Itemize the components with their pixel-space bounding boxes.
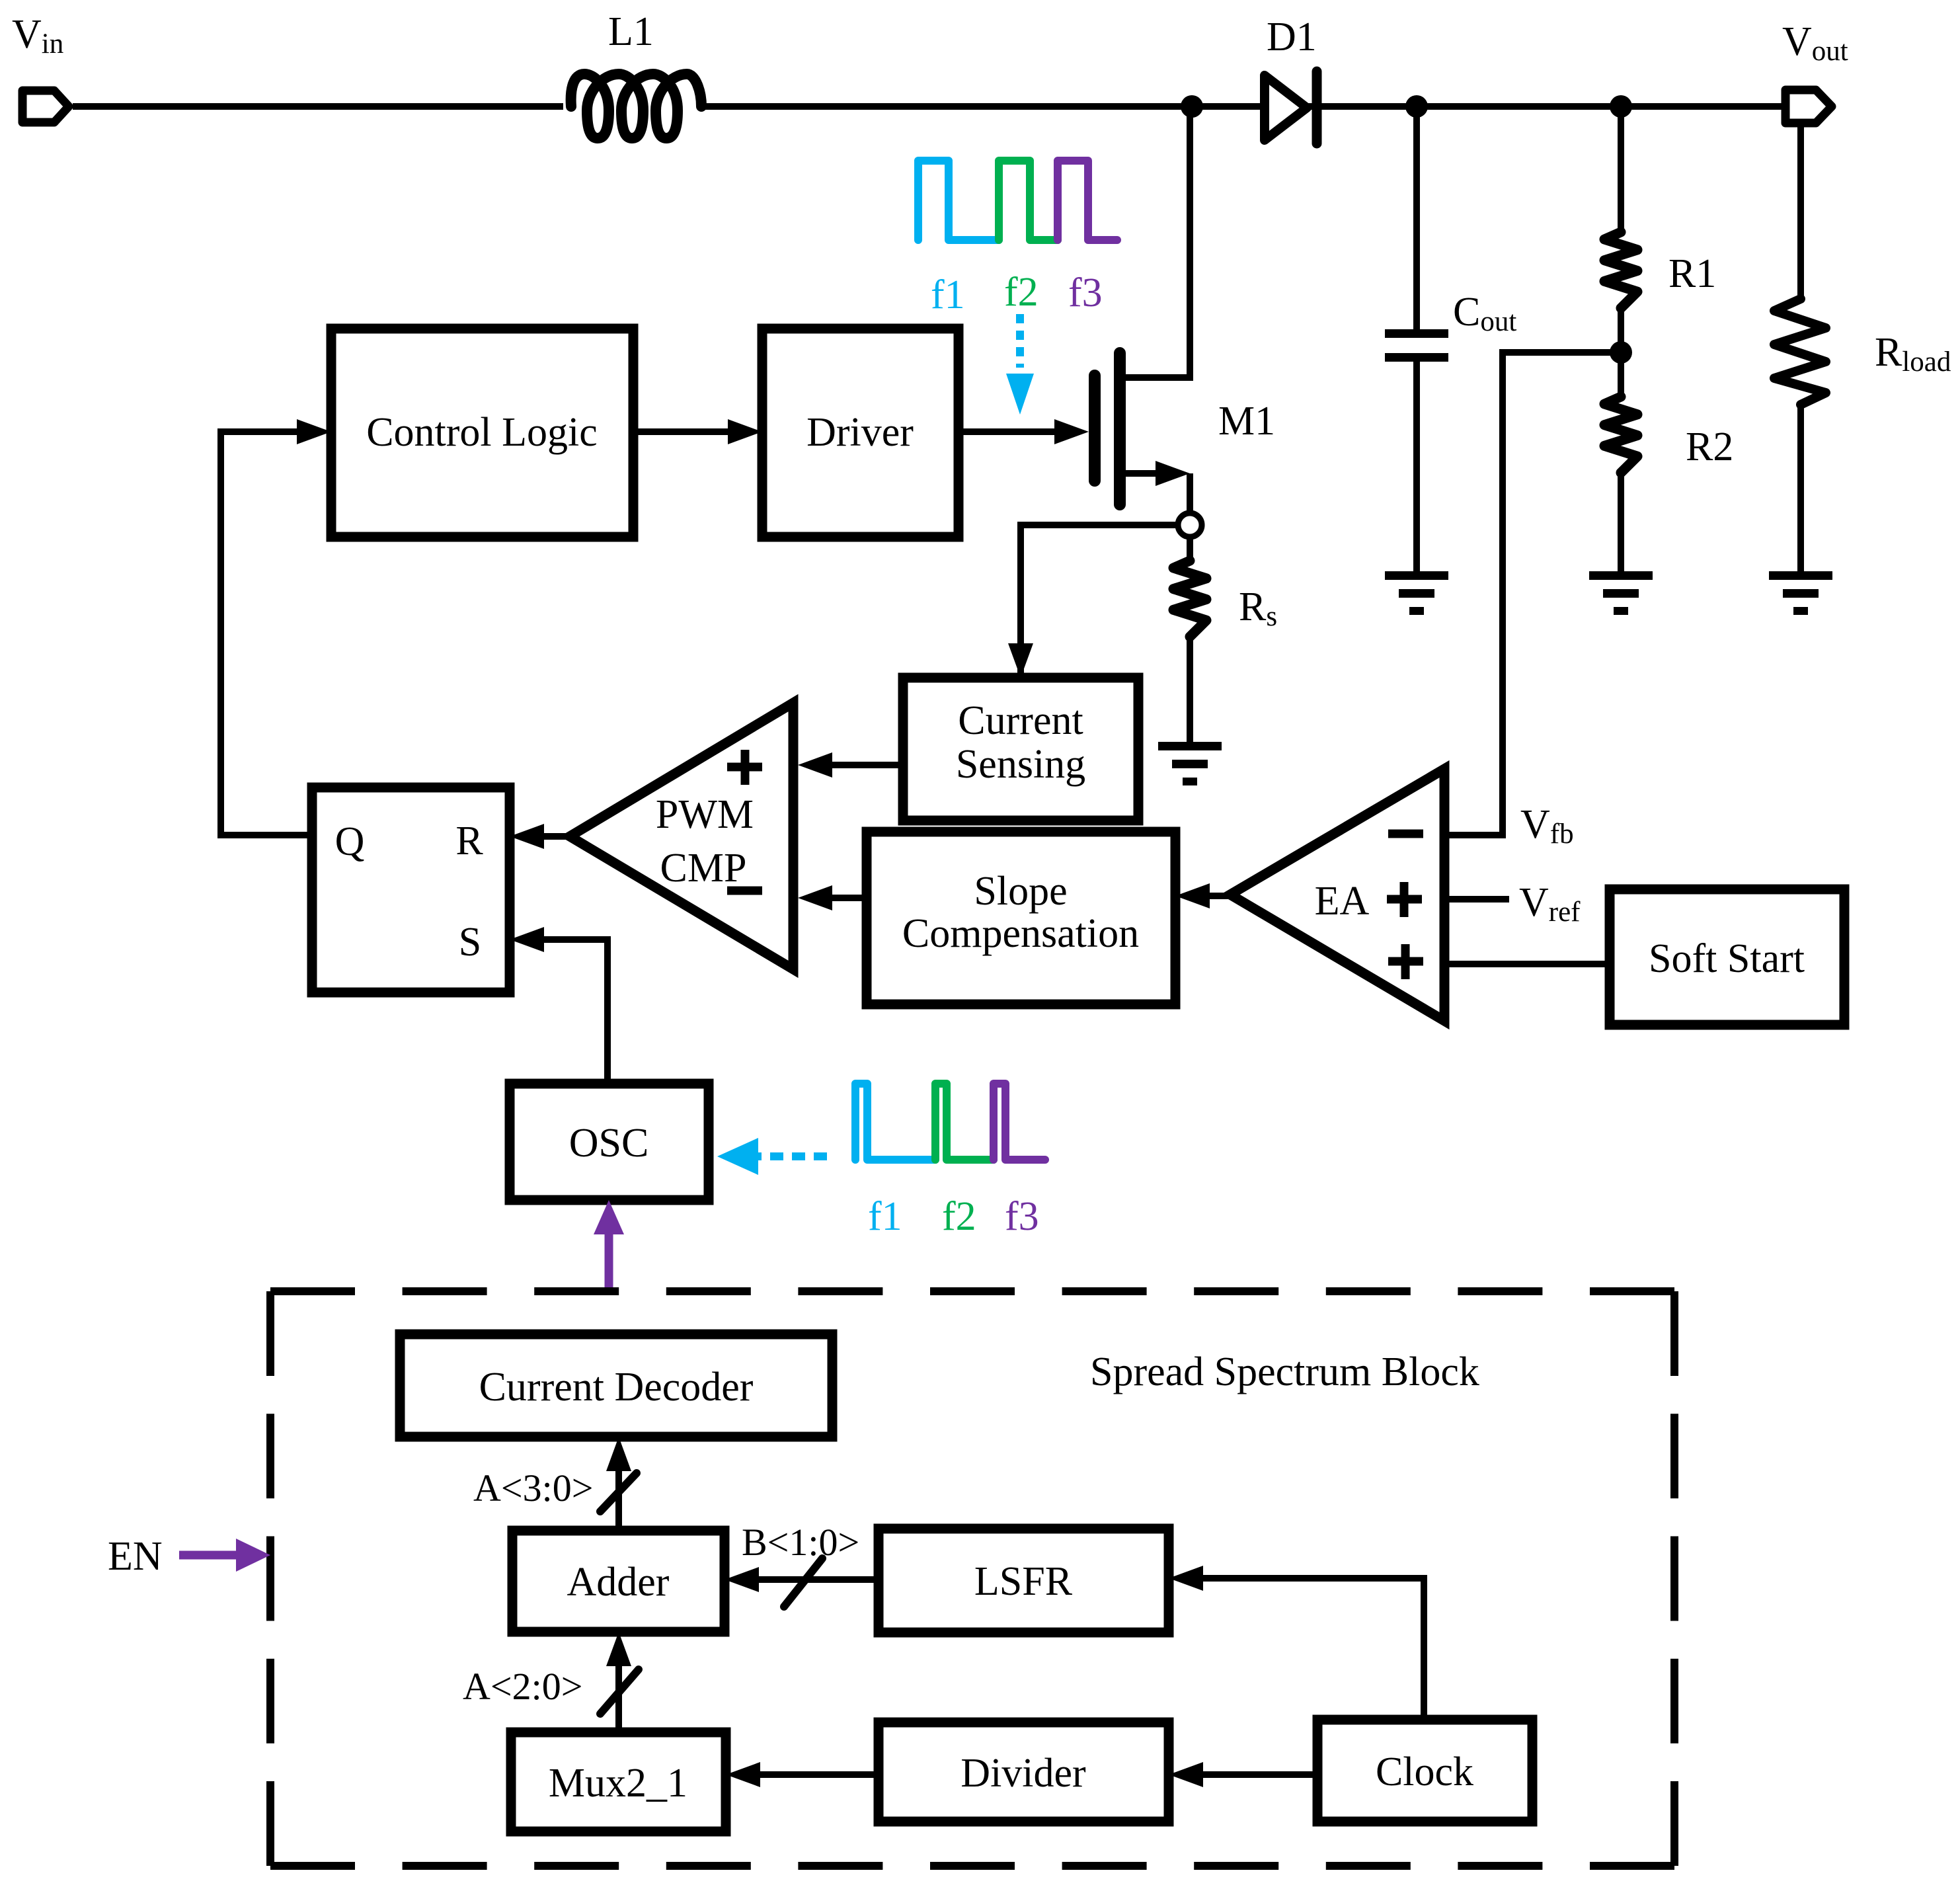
svg-text:R: R xyxy=(455,819,483,863)
svg-text:Divider: Divider xyxy=(960,1751,1086,1796)
svg-text:Mux2_1: Mux2_1 xyxy=(549,1761,687,1806)
svg-text:Adder: Adder xyxy=(567,1560,670,1605)
svg-text:R1: R1 xyxy=(1668,251,1716,296)
svg-text:Sensing: Sensing xyxy=(956,742,1085,787)
svg-text:EA: EA xyxy=(1315,879,1370,924)
svg-text:f2: f2 xyxy=(942,1194,976,1239)
svg-text:Compensation: Compensation xyxy=(902,911,1139,956)
svg-text:EN: EN xyxy=(108,1534,163,1579)
svg-text:M1: M1 xyxy=(1218,399,1275,444)
svg-text:A<2:0>: A<2:0> xyxy=(463,1665,582,1708)
svg-text:Driver: Driver xyxy=(806,410,914,455)
svg-text:f3: f3 xyxy=(1005,1194,1039,1239)
svg-text:f1: f1 xyxy=(931,272,965,317)
svg-text:S: S xyxy=(459,920,481,965)
svg-text:Slope: Slope xyxy=(974,869,1067,914)
svg-text:B<1:0>: B<1:0> xyxy=(742,1521,859,1564)
svg-text:Current Decoder: Current Decoder xyxy=(479,1365,754,1410)
svg-text:Current: Current xyxy=(958,698,1083,743)
svg-text:R2: R2 xyxy=(1686,424,1733,469)
svg-text:PWM: PWM xyxy=(656,792,754,837)
svg-text:CMP: CMP xyxy=(660,846,747,891)
svg-text:L1: L1 xyxy=(608,9,654,54)
svg-text:f2: f2 xyxy=(1004,270,1039,315)
svg-text:LSFR: LSFR xyxy=(974,1559,1073,1604)
svg-text:f3: f3 xyxy=(1068,270,1103,315)
svg-text:f1: f1 xyxy=(868,1194,902,1239)
svg-text:Soft Start: Soft Start xyxy=(1649,936,1805,981)
svg-text:OSC: OSC xyxy=(569,1121,649,1166)
svg-text:D1: D1 xyxy=(1267,15,1317,60)
svg-text:A<3:0>: A<3:0> xyxy=(473,1466,593,1509)
svg-text:Control Logic: Control Logic xyxy=(366,410,598,455)
svg-text:Spread Spectrum Block: Spread Spectrum Block xyxy=(1090,1349,1479,1394)
svg-text:Clock: Clock xyxy=(1376,1749,1473,1794)
svg-text:Q: Q xyxy=(335,819,365,864)
